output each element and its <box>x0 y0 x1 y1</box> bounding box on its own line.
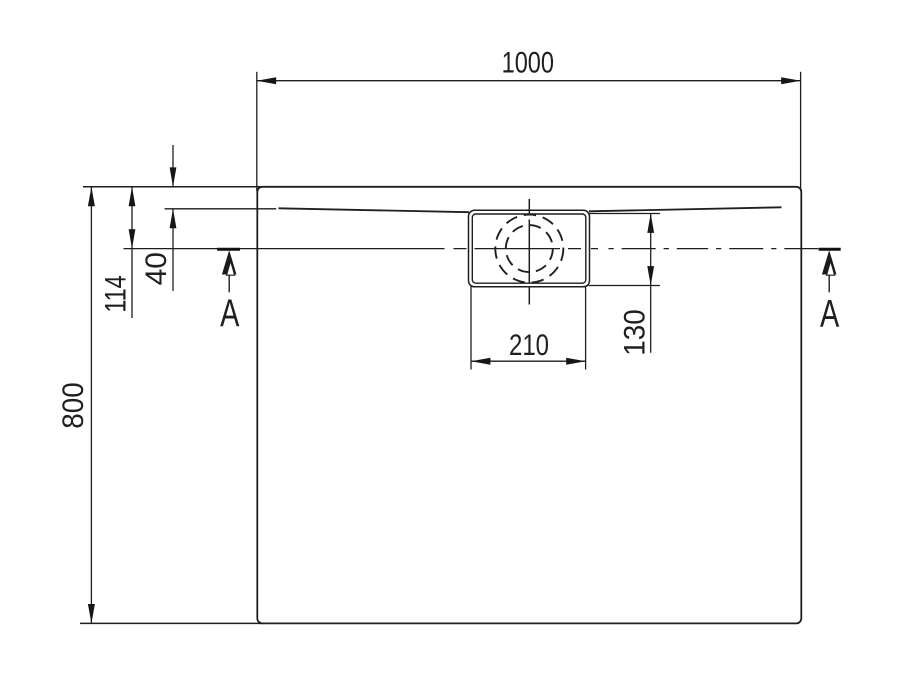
dimension 130: top arrow <box>647 214 654 233</box>
dimension 210: line <box>471 360 586 362</box>
dimension 40: down arrow (tip at tray top edge) <box>170 167 177 186</box>
dimension 130: bottom arrow <box>647 266 654 285</box>
section arrow A right: tail <box>828 275 830 293</box>
dimension 114: top arrow <box>129 187 136 206</box>
dimension 800: top arrow <box>88 187 95 206</box>
drain box outer <box>469 210 590 286</box>
svg-text:114: 114 <box>99 275 132 312</box>
dimension 40: upper line (above tray edge) <box>172 145 174 187</box>
section arrow A right: inner outlined head <box>827 261 835 275</box>
drain box inner <box>472 214 586 283</box>
section cut tick right <box>819 248 841 251</box>
dimension 1000: line <box>257 80 801 82</box>
dimension 40: up arrow (tip at inner line) <box>170 209 177 228</box>
svg-text:A: A <box>220 292 239 335</box>
slope line right (toward drain) <box>589 207 782 211</box>
dimension 114: bottom arrow <box>129 229 136 248</box>
dimension 1000: right arrow <box>781 77 800 84</box>
svg-text:1000: 1000 <box>502 46 554 79</box>
section arrow A left: solid head <box>222 250 237 274</box>
drain outer dashed circle <box>495 215 563 283</box>
centerline: solid left run at y=248.6 <box>124 248 445 250</box>
svg-text:A: A <box>820 293 839 336</box>
dimension 210: right arrow <box>566 358 585 365</box>
drain vertical centerline <box>528 199 530 305</box>
tray outline (1000x800 shower tray, rounded rect) <box>257 187 801 624</box>
dimension 114: line <box>131 187 133 318</box>
section arrow A left: tail <box>228 275 230 293</box>
section arrow A left: inner outlined head <box>227 261 235 275</box>
extension lines for dim 210 <box>470 287 472 370</box>
svg-text:210: 210 <box>509 327 549 361</box>
section arrow A right: solid head <box>822 250 837 274</box>
svg-text:130: 130 <box>619 309 652 356</box>
dimension 210: left arrow <box>471 358 490 365</box>
extension lines for dim 130 <box>589 213 661 215</box>
bottom edge extension line (left of tray) <box>80 622 262 624</box>
extension line left, x=256.8 for dim 1000 <box>256 72 258 191</box>
svg-text:800: 800 <box>57 382 90 429</box>
dimension 130: line <box>650 214 652 353</box>
dimension 40: lower line <box>172 209 174 291</box>
extension line right, x=800.6 for dim 1000 <box>800 72 802 191</box>
extension line y=208.8 (for dim 40) <box>165 208 277 210</box>
svg-text:40: 40 <box>140 252 173 285</box>
dimension 800: bottom arrow <box>88 604 95 623</box>
centerline: dash-dot run to the right <box>454 248 819 250</box>
dimension 800: line <box>90 187 92 624</box>
drain inner dashed circle <box>506 225 553 272</box>
top edge extension line (left of tray) <box>83 186 262 188</box>
dimension 1000: left arrow <box>257 77 276 84</box>
section cut tick left <box>217 248 240 251</box>
slope line left (toward drain) <box>279 208 470 212</box>
